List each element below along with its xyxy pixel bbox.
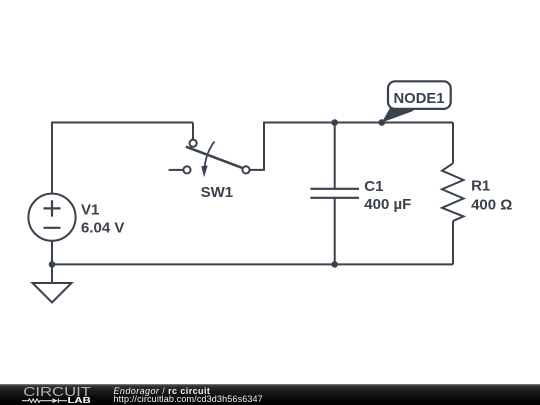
svg-text:R1: R1 <box>471 177 490 194</box>
svg-text:NODE1: NODE1 <box>394 91 445 107</box>
footer bar <box>0 384 540 405</box>
ground <box>33 283 72 303</box>
wire capacitor bottom branch <box>334 199 336 265</box>
junction dot capacitor bottom <box>331 261 338 268</box>
wire switch top branch <box>192 123 194 140</box>
label V1 value <box>81 202 124 237</box>
svg-text:C1: C1 <box>364 178 383 195</box>
wire capacitor top branch <box>334 123 336 189</box>
svg-text:SW1: SW1 <box>201 184 234 201</box>
resistor R1 <box>442 163 464 221</box>
switch motion arrow <box>201 142 214 178</box>
junction dot capacitor top <box>331 119 338 126</box>
wire switch common to top bus <box>250 123 453 170</box>
svg-text:LAB: LAB <box>68 395 91 405</box>
wire top-left from V1 to switch branch <box>52 123 193 194</box>
voltage source V1 <box>28 194 75 241</box>
switch SW1 <box>183 140 249 202</box>
wire bottom bus <box>52 263 453 265</box>
wire V1 bottom to ground <box>51 241 53 283</box>
CircuitLab logo <box>0 384 100 405</box>
switch common terminal <box>242 166 249 173</box>
switch throw-1 terminal <box>190 140 197 147</box>
junction dot ground node <box>49 261 56 268</box>
junction dot NODE1 <box>379 119 386 126</box>
node NODE1 callout <box>382 81 451 122</box>
svg-text:6.04 V: 6.04 V <box>81 220 124 237</box>
label R1 value <box>471 177 512 213</box>
label SW1 <box>201 184 234 201</box>
wire resistor to bottom bus <box>452 221 454 265</box>
capacitor C1 <box>310 189 359 198</box>
wire switch throw-2 stub <box>169 169 183 171</box>
svg-text:400 Ω: 400 Ω <box>471 196 512 213</box>
svg-text:V1: V1 <box>81 202 99 219</box>
switch blade <box>186 147 242 168</box>
switch throw-2 terminal <box>183 166 190 173</box>
label C1 value <box>364 178 411 213</box>
wire right vertical to resistor <box>452 123 454 164</box>
svg-text:400 µF: 400 µF <box>364 196 411 213</box>
